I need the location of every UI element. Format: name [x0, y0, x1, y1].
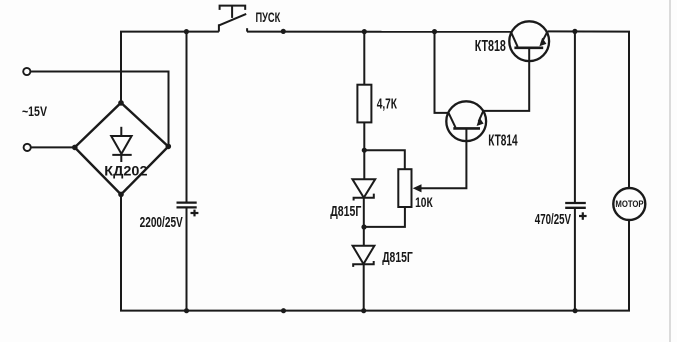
- svg-text:КТ818: КТ818: [475, 38, 506, 55]
- svg-text:470/25V: 470/25V: [535, 212, 571, 228]
- svg-text:КД202: КД202: [104, 163, 147, 179]
- svg-text:4,7К: 4,7К: [377, 97, 397, 113]
- svg-text:~15V: ~15V: [22, 103, 47, 119]
- svg-text:ПУСК: ПУСК: [256, 9, 281, 25]
- svg-text:Д815Г: Д815Г: [382, 249, 413, 266]
- svg-text:Д815Г: Д815Г: [330, 203, 361, 220]
- svg-text:2200/25V: 2200/25V: [140, 215, 183, 231]
- svg-text:10К: 10К: [415, 194, 433, 210]
- svg-text:МОТОР: МОТОР: [615, 199, 643, 209]
- svg-text:КТ814: КТ814: [488, 133, 518, 150]
